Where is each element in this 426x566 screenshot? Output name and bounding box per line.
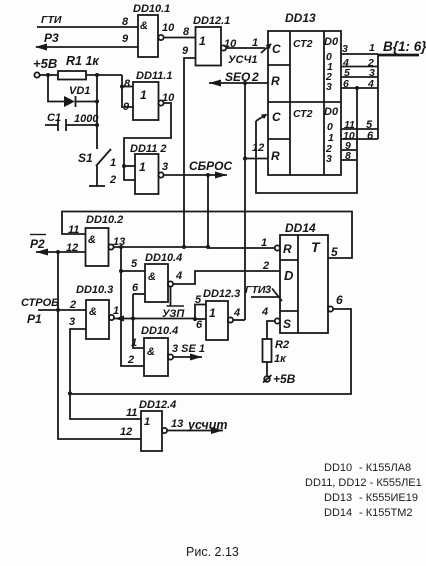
svg-text:&: & (148, 271, 156, 283)
wire vertical from SEO junction to DD12.3 output (244, 83, 246, 320)
wire node to diode anode (48, 75, 64, 102)
wire DD10.2-13 vertical to pins 5 and 2 (121, 247, 144, 366)
svg-text:R: R (271, 149, 280, 163)
svg-text:СТ2: СТ2 (293, 108, 313, 120)
node UZP line from DD10.3 out (114, 318, 195, 320)
svg-text:- К555ИЕ19: - К555ИЕ19 (359, 492, 418, 504)
wire DD12.3 out up (233, 319, 245, 321)
svg-text:ГТИ: ГТИ (41, 14, 62, 26)
svg-text:1: 1 (131, 337, 137, 349)
dynamic input arrow into DD13 upper C (261, 44, 271, 53)
svg-text:12: 12 (252, 142, 264, 154)
svg-text:1: 1 (252, 37, 258, 49)
svg-text:4: 4 (261, 306, 268, 318)
wire STROB to DD10.3 pin2 (38, 309, 86, 311)
svg-text:DD10.4: DD10.4 (141, 325, 178, 337)
svg-text:СБРОС: СБРОС (189, 159, 233, 173)
wire P2 arrow to DD10.2 pin12 (36, 251, 86, 253)
svg-text:2: 2 (251, 70, 259, 84)
svg-text:5: 5 (331, 245, 338, 259)
wire DD10.1 out to DD12.1 pin8 (164, 37, 196, 39)
svg-text:Р3: Р3 (44, 31, 59, 45)
svg-text:DD13: DD13 (324, 492, 352, 504)
svg-text:R: R (271, 74, 280, 88)
svg-text:1: 1 (144, 416, 150, 428)
svg-text:9: 9 (122, 33, 129, 45)
svg-text:&: & (147, 346, 155, 358)
power +5V terminal bottom (264, 376, 270, 382)
svg-text:R1 1к: R1 1к (66, 54, 99, 68)
svg-text:В{1: 6}: В{1: 6} (383, 39, 426, 54)
svg-text:1: 1 (369, 42, 375, 54)
resistor R2 (263, 339, 272, 362)
svg-text:3: 3 (326, 81, 332, 93)
svg-text:9: 9 (182, 45, 189, 57)
DD13 upper output wires pins 3,4,5,6 (341, 53, 378, 55)
svg-text:4: 4 (367, 78, 374, 90)
svg-text:R: R (283, 242, 292, 256)
svg-text:6: 6 (367, 130, 374, 142)
svg-text:3: 3 (265, 284, 271, 296)
svg-text:8: 8 (183, 26, 190, 38)
svg-text:12: 12 (120, 426, 132, 438)
svg-text:2: 2 (127, 354, 134, 366)
wire R2 to +5V terminal (266, 362, 268, 376)
DD13 lower output wires pins 11,10 and stubs 9,8 (341, 128, 378, 130)
wire UZP to DD10.4a pin6 and DD10.4b pin1 (133, 293, 145, 295)
wire to DD14 R input (208, 247, 275, 249)
svg-text:4: 4 (175, 270, 182, 282)
svg-text:1: 1 (209, 306, 216, 320)
svg-text:2: 2 (262, 260, 269, 272)
svg-text:DD11.1: DD11.1 (136, 70, 172, 82)
svg-text:- К155ЛА8: - К155ЛА8 (359, 462, 411, 474)
svg-text:&: & (89, 306, 97, 318)
svg-text:DD12.1: DD12.1 (193, 15, 230, 27)
svg-text:8: 8 (345, 150, 351, 162)
wire P3 arrow to DD10.1 pin9 (36, 46, 138, 48)
wire DD14 pin6 feedback long bottom (70, 309, 351, 394)
svg-text:D0: D0 (324, 36, 339, 48)
svg-text:8: 8 (122, 16, 129, 28)
svg-text:4: 4 (233, 307, 240, 319)
svg-text:R2: R2 (275, 339, 289, 351)
wire DD11.1 out to DD11.2 pins (124, 103, 171, 180)
svg-text:+5В: +5В (273, 372, 296, 386)
svg-text:DD10: DD10 (324, 462, 352, 474)
wire SBROS junction down to DD10.2 out line (207, 175, 209, 247)
svg-text:1: 1 (139, 160, 146, 174)
svg-text:&: & (88, 234, 96, 246)
svg-text:3: 3 (342, 43, 348, 55)
svg-text:6: 6 (336, 293, 343, 307)
svg-text:СТ2: СТ2 (293, 38, 313, 50)
svg-text:УЗП: УЗП (162, 308, 185, 320)
wire UZP to DD12.3 pins 5,6 (195, 305, 206, 320)
wire DD12.1 pin9 down (184, 58, 196, 247)
wire DD14 pin5 feedback to DD10.2 pin11 (62, 212, 352, 259)
power +5V terminal top (34, 72, 39, 77)
svg-text:С1: С1 (47, 112, 61, 124)
svg-text:3 SE 1: 3 SE 1 (172, 343, 205, 355)
wire DD14 S to R2 (267, 321, 275, 339)
bus vertical join (377, 54, 379, 139)
svg-text:- К155ТМ2: - К155ТМ2 (359, 507, 412, 519)
svg-text:DD14: DD14 (285, 221, 316, 235)
svg-text:DD10.1: DD10.1 (133, 3, 170, 15)
wire DD10.4a out to DD14 D (173, 271, 280, 284)
wire +5V to R1 (40, 74, 58, 76)
svg-text:13: 13 (171, 418, 183, 430)
svg-text:2: 2 (109, 174, 116, 186)
svg-text:C: C (272, 110, 281, 124)
svg-text:DD10.4: DD10.4 (145, 252, 182, 264)
svg-text:1000: 1000 (74, 113, 99, 125)
svg-text:DD11, DD12 - К555ЛЕ1: DD11, DD12 - К555ЛЕ1 (305, 477, 422, 489)
svg-text:D: D (284, 268, 294, 283)
svg-text:3: 3 (69, 316, 75, 328)
svg-text:S: S (283, 317, 291, 331)
svg-text:3: 3 (162, 161, 168, 173)
svg-text:&: & (140, 20, 148, 32)
svg-text:D0: D0 (324, 106, 339, 118)
wire DD13 pin6 to lower C (cascade) (355, 86, 359, 90)
svg-text:DD14: DD14 (324, 507, 352, 519)
svg-text:DD10.2: DD10.2 (86, 214, 123, 226)
svg-text:DD10.3: DD10.3 (76, 284, 113, 296)
svg-text:DD12.4: DD12.4 (139, 399, 176, 411)
svg-text:5: 5 (131, 258, 138, 270)
svg-text:1: 1 (140, 88, 147, 102)
wire DD10.3 pin3 down to DD12.4 pin11 (70, 329, 141, 419)
svg-text:+5В: +5В (33, 56, 57, 71)
svg-text:1к: 1к (274, 353, 287, 365)
svg-text:1: 1 (110, 157, 116, 169)
svg-text:SEO: SEO (225, 70, 251, 84)
svg-text:10: 10 (162, 22, 175, 34)
svg-text:СТРОБ: СТРОБ (21, 297, 59, 309)
svg-text:DD12.3: DD12.3 (203, 288, 240, 300)
svg-text:VD1: VD1 (69, 85, 90, 97)
svg-text:8: 8 (124, 78, 131, 90)
svg-text:3: 3 (326, 153, 332, 165)
svg-text:Рис. 2.13: Рис. 2.13 (186, 545, 239, 559)
svg-text:УСЧ1: УСЧ1 (228, 54, 257, 66)
wire DD10.2 out line (114, 246, 208, 248)
wire right node vertical (96, 75, 98, 148)
svg-text:6: 6 (132, 282, 139, 294)
svg-text:C: C (272, 42, 281, 56)
svg-text:2: 2 (69, 299, 76, 311)
svg-text:6: 6 (343, 78, 349, 90)
svg-text:T: T (311, 239, 321, 255)
svg-text:S1: S1 (78, 151, 93, 165)
DD14 output 6 with circle (328, 306, 333, 311)
svg-text:1: 1 (261, 237, 267, 249)
svg-text:6: 6 (196, 319, 203, 331)
bus B{1:6} (378, 54, 419, 57)
wire to DD13 lower R pin12 (245, 158, 268, 160)
svg-text:1: 1 (199, 34, 206, 48)
svg-text:11: 11 (126, 407, 137, 419)
wire DD12.1 out to DD13 C1, label USCH1 (226, 47, 265, 49)
svg-text:Р1: Р1 (27, 312, 42, 326)
svg-text:1: 1 (113, 305, 119, 317)
wire R1 node to DD11.1 pins 8,9 (122, 75, 133, 107)
svg-text:ГТИ: ГТИ (245, 284, 266, 296)
svg-text:DD13: DD13 (285, 11, 316, 25)
wire R1 right node (86, 74, 122, 76)
resistor R1 (58, 71, 86, 80)
svg-text:Р2: Р2 (30, 237, 45, 251)
wire P2/STROBE vertical down to DD12.4 pin12 (58, 252, 141, 439)
wire GTI to DD10.1 pin8 (37, 26, 138, 28)
